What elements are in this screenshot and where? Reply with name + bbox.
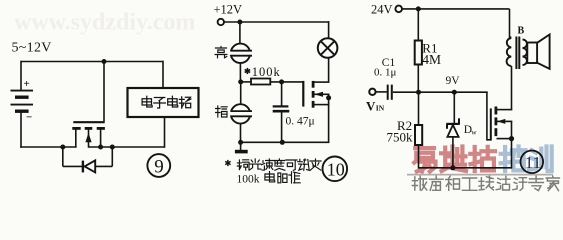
svg-text:9: 9: [154, 156, 164, 177]
svg-text:5~12V: 5~12V: [12, 41, 52, 56]
svg-text:IN: IN: [376, 104, 385, 113]
svg-text:+12V: +12V: [214, 2, 243, 16]
svg-text:100k: 100k: [252, 65, 281, 79]
svg-text:w: w: [471, 127, 477, 136]
svg-text:www.sydzdiy.com: www.sydzdiy.com: [14, 10, 195, 36]
svg-text:+: +: [24, 78, 30, 90]
svg-text:4M: 4M: [422, 52, 441, 67]
svg-text:V: V: [366, 98, 376, 113]
svg-text:B: B: [518, 26, 525, 37]
svg-text:10: 10: [327, 159, 345, 179]
svg-text:750k: 750k: [387, 129, 414, 144]
svg-text:9V: 9V: [446, 75, 461, 87]
svg-text:24V: 24V: [371, 2, 393, 16]
svg-text:0. 47μ: 0. 47μ: [286, 115, 315, 127]
svg-text:−: −: [26, 112, 32, 124]
svg-text:100k: 100k: [237, 174, 260, 186]
svg-text:0. 1μ: 0. 1μ: [374, 67, 397, 79]
svg-text:11: 11: [525, 153, 541, 172]
